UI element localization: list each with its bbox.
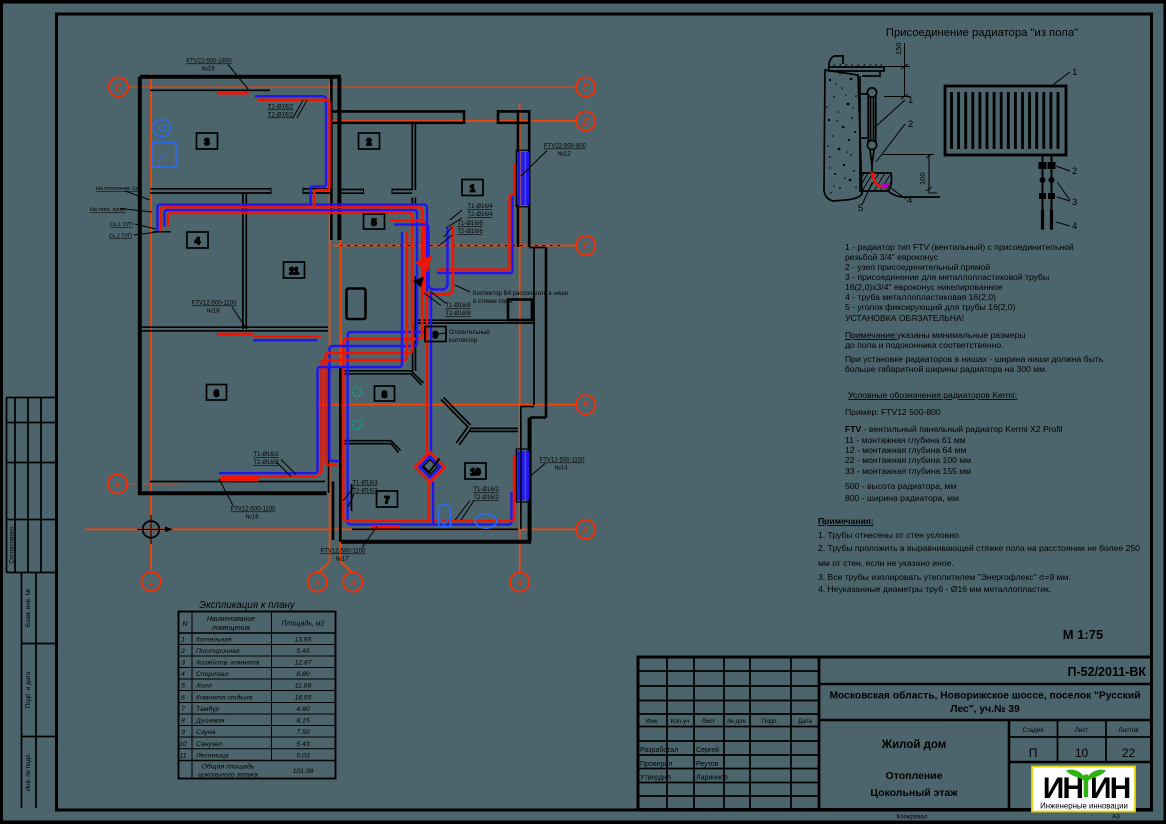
svg-text:3: 3 <box>204 137 209 147</box>
detail leaders left <box>862 100 906 205</box>
svg-text:П: П <box>1029 746 1038 760</box>
radiator FTV12-500-1100 N14 room10 <box>516 449 530 502</box>
axis circle D right <box>576 111 595 130</box>
svg-text:12.87: 12.87 <box>294 660 311 667</box>
svg-text:Лес", уч.№ 39: Лес", уч.№ 39 <box>950 704 1020 715</box>
wall: lower block left <box>328 367 330 493</box>
svg-text:Примечание:: Примечание: <box>845 330 897 340</box>
wall: rooms 2/1 divider <box>412 124 415 205</box>
svg-text:резьбой 3/4" евроконус: резьбой 3/4" евроконус <box>845 252 939 262</box>
radiator FTV12-500-1100 N17 room8 <box>371 525 400 528</box>
plan labels <box>186 59 586 563</box>
wall: lower block right <box>520 406 522 530</box>
diagonal pipe chase diamond <box>415 452 445 524</box>
svg-text:№15: №15 <box>201 66 215 73</box>
svg-text:1: 1 <box>148 577 153 588</box>
title block left grid <box>638 657 819 810</box>
svg-text:Холл: Холл <box>195 683 212 690</box>
floor hatch block <box>860 173 940 197</box>
wall: room7 door jamb <box>351 484 353 511</box>
fixtures: sink <box>475 514 497 528</box>
pipe T1 supply branch 2 <box>168 213 412 465</box>
svg-text:5: 5 <box>181 683 185 690</box>
title block right part <box>819 684 1152 810</box>
axis circle V right <box>576 395 595 414</box>
svg-text:Отопление: Отопление <box>886 770 943 782</box>
radiator FTV22-500-800 N12 room1 <box>516 150 530 207</box>
svg-text:Сх.1 ТУП: Сх.1 ТУП <box>110 222 133 228</box>
svg-text:Изм.: Изм. <box>645 718 659 725</box>
pipe T1 supply room1 branch <box>437 164 514 270</box>
svg-text:3. Все трубы изолировать утепл: 3. Все трубы изолировать утеплителем "Эн… <box>818 572 1071 582</box>
pipe T2 return room3 riser <box>255 96 326 204</box>
svg-text:Лист: Лист <box>702 718 716 725</box>
svg-text:2 - узел присоединительный пря: 2 - узел присоединительный прямой <box>845 262 990 272</box>
svg-text:2: 2 <box>366 137 371 147</box>
svg-text:Т1-Ø16/2: Т1-Ø16/2 <box>268 105 294 111</box>
svg-text:9: 9 <box>181 729 185 736</box>
svg-text:Стадия: Стадия <box>1022 727 1043 734</box>
wall: upper middle band y110-124 <box>331 110 529 124</box>
svg-text:Г: Г <box>583 241 589 252</box>
svg-text:Е: Е <box>583 83 590 94</box>
svg-text:Условные обозначения радиаторо: Условные обозначения радиаторов Kermi: <box>848 390 1017 400</box>
svg-text:цокольного этажа: цокольного этажа <box>198 772 258 779</box>
svg-text:FTV12-500-1100: FTV12-500-1100 <box>540 458 586 464</box>
wall inner face <box>860 76 866 173</box>
svg-text:Т2-Ø16/4: Т2-Ø16/4 <box>467 212 493 218</box>
dim line top <box>884 43 910 99</box>
svg-text:16(2,0)х3/4" евроконус никелир: 16(2,0)х3/4" евроконус никелированное <box>845 282 1003 292</box>
pipe T1 supply room3 riser <box>258 100 330 208</box>
axis circle 4 <box>510 572 529 591</box>
svg-text:5: 5 <box>858 203 863 214</box>
svg-text:1: 1 <box>181 637 185 644</box>
svg-text:Примечания:: Примечания: <box>818 516 874 526</box>
svg-text:22: 22 <box>1122 746 1136 760</box>
wall: door diagonal room10 <box>441 398 471 428</box>
svg-text:4: 4 <box>517 578 522 589</box>
wall: rooms 4/11 divider <box>243 193 246 329</box>
svg-text:до пола и подоконника соответс: до пола и подоконника соответственно. <box>845 340 1004 350</box>
explication table frame <box>179 612 336 779</box>
svg-text:Т1-Ø16/2: Т1-Ø16/2 <box>473 487 499 493</box>
fixtures: furniture room11 <box>347 289 366 320</box>
svg-text:FTV12-500-1100: FTV12-500-1100 <box>192 301 238 307</box>
svg-text:А: А <box>582 525 589 536</box>
svg-text:Т1-Ø16/8: Т1-Ø16/8 <box>445 303 471 309</box>
pipe source end cap <box>153 231 171 233</box>
svg-text:№12: №12 <box>557 151 571 158</box>
svg-text:1: 1 <box>470 184 475 194</box>
svg-text:больше габаритной ширины радиа: больше габаритной ширины радиатора на 30… <box>845 364 1047 374</box>
svg-text:3: 3 <box>350 578 356 589</box>
radiator front view <box>945 86 1066 155</box>
svg-text:На тепл. пункт: На тепл. пункт <box>90 207 126 213</box>
svg-text:7.50: 7.50 <box>296 729 309 736</box>
svg-text:1: 1 <box>908 95 913 106</box>
wall: spine x330-341 upper <box>330 78 333 240</box>
svg-text:2: 2 <box>180 648 185 655</box>
svg-text:в стяжке пола: в стяжке пола <box>473 299 513 305</box>
svg-text:2: 2 <box>1072 166 1077 177</box>
pipe T2 return main corridor <box>158 205 512 525</box>
svg-text:указаны минимальные размеры: указаны минимальные размеры <box>897 330 1026 340</box>
radiator FTV12-500-1100 N16 room6 and pipes <box>219 472 313 474</box>
svg-text:Т2-Ø16/2: Т2-Ø16/2 <box>268 113 294 119</box>
svg-text:Сергей: Сергей <box>696 746 719 754</box>
svg-text:Реутов: Реутов <box>696 761 719 768</box>
svg-text:Б: Б <box>114 480 120 491</box>
svg-text:13.65: 13.65 <box>294 637 311 644</box>
svg-text:Т1-Ø16/2: Т1-Ø16/2 <box>253 452 279 458</box>
collector V4 hairpin loops <box>390 221 453 294</box>
left stamp lower box <box>22 573 57 809</box>
axis circle E right <box>576 77 595 96</box>
svg-text:11: 11 <box>289 266 299 276</box>
svg-text:Комната отдыха: Комната отдыха <box>196 694 253 702</box>
svg-text:10: 10 <box>1075 746 1089 760</box>
detail leaders right <box>1050 72 1070 226</box>
svg-text:№ док.: № док. <box>727 718 747 725</box>
svg-text:Т1-Ø16/6: Т1-Ø16/6 <box>457 221 483 227</box>
wall: room3 bottom <box>150 188 412 195</box>
svg-text:№17: №17 <box>335 556 349 563</box>
svg-text:4: 4 <box>181 671 185 678</box>
svg-text:На отопление 1эт.: На отопление 1эт. <box>96 186 140 192</box>
svg-text:8.80: 8.80 <box>296 671 309 678</box>
svg-text:М 1:75: М 1:75 <box>1063 627 1103 642</box>
svg-text:Т2-Ø16/8: Т2-Ø16/8 <box>445 311 471 317</box>
axis circle A right <box>576 520 595 539</box>
svg-text:Т2-Ø16/3: Т2-Ø16/3 <box>352 489 378 495</box>
svg-text:10: 10 <box>470 467 480 477</box>
svg-text:Присоединение радиатора "из по: Присоединение радиатора "из пола" <box>886 27 1078 39</box>
axis horizontals <box>128 86 576 88</box>
svg-text:В: В <box>583 400 590 411</box>
svg-text:8.15: 8.15 <box>296 718 309 725</box>
svg-text:Проверил: Проверил <box>640 761 672 768</box>
pipe T2 return branch 2 <box>165 210 418 461</box>
room number boxes <box>187 133 486 507</box>
wall: x414 vertical <box>413 276 416 371</box>
benchmark symbol <box>137 515 173 544</box>
svg-text:11: 11 <box>179 753 186 760</box>
fixtures: toilet <box>439 505 451 527</box>
walls: left block outer <box>138 77 341 495</box>
svg-text:Лестница: Лестница <box>195 753 229 760</box>
svg-text:2: 2 <box>908 119 913 130</box>
svg-text:4: 4 <box>195 236 201 246</box>
svg-text:Кол.уч: Кол.уч <box>671 718 690 725</box>
svg-text:3 - присоединение для металлоп: 3 - присоединение для металлопластиковой… <box>845 272 1049 282</box>
svg-text:6: 6 <box>214 389 219 399</box>
explication rows <box>179 637 313 779</box>
svg-text:ИН: ИН <box>1043 772 1083 805</box>
svg-text:П-52/2011-ВК: П-52/2011-ВК <box>1068 665 1147 679</box>
svg-text:Утвердил: Утвердил <box>640 775 671 782</box>
wall speckles <box>826 70 857 194</box>
svg-text:500 - высота радиатора, мм: 500 - высота радиатора, мм <box>845 481 957 491</box>
svg-text:Московская область, Новорижско: Московская область, Новорижское шоссе, п… <box>829 690 1140 702</box>
radiator FTV22 room3 <box>217 91 249 94</box>
detail wall section <box>824 56 884 201</box>
svg-text:Дата: Дата <box>798 718 812 725</box>
wall: lower block bottom <box>341 540 531 544</box>
svg-text:Д: Д <box>581 117 589 128</box>
svg-text:помещения: помещения <box>212 625 250 632</box>
svg-text:Копировал: Копировал <box>896 814 927 821</box>
svg-text:33 - монтажная глубина 155 мм: 33 - монтажная глубина 155 мм <box>845 466 971 476</box>
svg-text:мм от стен, если не указано ин: мм от стен, если не указано иное. <box>818 558 954 568</box>
svg-text:ИН: ИН <box>1090 772 1130 805</box>
svg-text:коллектор: коллектор <box>449 338 478 344</box>
red elbow pipe <box>873 176 886 187</box>
svg-text:10: 10 <box>179 741 187 748</box>
svg-text:1. Трубы отнесены от стен усло: 1. Трубы отнесены от стен условно. <box>818 530 961 540</box>
svg-text:FTV12-500-1100: FTV12-500-1100 <box>321 549 367 555</box>
svg-text:Листов: Листов <box>1118 727 1139 734</box>
svg-text:8: 8 <box>181 718 185 725</box>
wall: mid horizontal y327-331 <box>141 327 328 331</box>
svg-text:N: N <box>182 621 188 628</box>
svg-text:Т1-Ø16/3: Т1-Ø16/3 <box>352 481 378 487</box>
svg-text:При установке радиаторов в ниш: При установке радиаторов в нишах - ширин… <box>845 354 1104 364</box>
svg-text:11.68: 11.68 <box>295 683 312 690</box>
svg-text:Цокольный этаж: Цокольный этаж <box>870 787 958 799</box>
svg-text:1 - радиатор тип FTV (вентильн: 1 - радиатор тип FTV (вентильный) с прис… <box>845 242 1074 252</box>
radiator FTV12-500-1100 N18 room4 and pipes <box>217 333 253 336</box>
axis circle 1 <box>141 572 160 591</box>
dim line right <box>883 154 937 193</box>
svg-text:12 - монтажная глубина 64 мм: 12 - монтажная глубина 64 мм <box>845 445 966 455</box>
wall: sauna partition horizontal <box>456 428 518 446</box>
svg-text:Постирочная: Постирочная <box>196 648 240 655</box>
svg-text:8: 8 <box>382 390 387 400</box>
svg-text:11 - монтажная глубина 61 мм: 11 - монтажная глубина 61 мм <box>845 435 966 445</box>
svg-text:1: 1 <box>1072 67 1077 78</box>
pipe T2 return room1 branch <box>437 196 513 273</box>
svg-text:4: 4 <box>1072 221 1077 232</box>
svg-text:Душевая: Душевая <box>195 718 225 725</box>
axis circle B left <box>108 474 127 493</box>
pipe feed to diamond chase <box>426 296 428 456</box>
svg-text:FTV22-500-1400: FTV22-500-1400 <box>186 59 232 65</box>
svg-text:5: 5 <box>371 218 376 228</box>
svg-text:4 - труба металлопластиковая 1: 4 - труба металлопластиковая 16(2,0) <box>845 292 996 302</box>
svg-text:№14: №14 <box>554 465 568 472</box>
svg-text:2. Трубы проложить в выравнива: 2. Трубы проложить в выравнивающей стяжк… <box>818 543 1140 553</box>
svg-text:800 - ширина радиатора, мм: 800 - ширина радиатора, мм <box>845 493 959 503</box>
svg-text:Площадь, м2: Площадь, м2 <box>282 620 325 628</box>
svg-text:7: 7 <box>181 706 185 713</box>
svg-text:22 - монтажная глубина 100 мм: 22 - монтажная глубина 100 мм <box>845 455 971 465</box>
svg-text:4. Неуказанные диаметры труб -: 4. Неуказанные диаметры труб - Ø16 мм ме… <box>818 584 1051 594</box>
axis circle 3 <box>343 572 362 591</box>
wall: east step <box>508 248 546 418</box>
wall: y372 horizontal + diagonal <box>342 371 424 385</box>
svg-text:УСТАНОВКА ОБЯЗАТЕЛЬНА!: УСТАНОВКА ОБЯЗАТЕЛЬНА! <box>845 313 964 323</box>
fixtures: teal drains <box>352 387 361 396</box>
wall: room1 right x518-530 <box>518 110 529 247</box>
explication header <box>182 616 324 632</box>
svg-text:100: 100 <box>918 172 927 185</box>
fixtures: room3 box <box>152 143 176 168</box>
svg-text:Жилой дом: Жилой дом <box>881 739 947 751</box>
svg-text:Подп.: Подп. <box>762 718 779 725</box>
svg-text:Инженерные инновации: Инженерные инновации <box>1040 802 1128 811</box>
svg-text:Лист: Лист <box>1075 727 1089 734</box>
svg-text:FTV22-500-800: FTV22-500-800 <box>544 144 587 150</box>
svg-text:Подп. и дата: Подп. и дата <box>25 671 32 708</box>
svg-text:FTV12-500-1100: FTV12-500-1100 <box>231 507 277 513</box>
svg-text:Отопительный: Отопительный <box>449 329 490 336</box>
svg-text:3: 3 <box>1072 197 1077 208</box>
svg-text:3: 3 <box>181 660 185 667</box>
svg-text:2: 2 <box>314 578 321 589</box>
svg-text:№16: №16 <box>245 514 259 521</box>
axis verticals <box>151 74 520 573</box>
svg-text:Инв. № подл.: Инв. № подл. <box>25 752 32 791</box>
svg-text:№18: №18 <box>206 308 220 315</box>
svg-text:9: 9 <box>433 330 438 340</box>
wall: y321 horizontal <box>416 320 535 323</box>
svg-text:101.98: 101.98 <box>293 768 314 775</box>
svg-text:5.43: 5.43 <box>296 741 309 748</box>
svg-text:Согласовано: Согласовано <box>9 526 16 564</box>
svg-text:Коллектор В4 располагать в ниш: Коллектор В4 располагать в нише <box>473 291 569 297</box>
svg-text:Спортзал: Спортзал <box>196 671 229 678</box>
left source labels <box>90 186 140 240</box>
svg-text:Котельная: Котельная <box>196 637 232 644</box>
svg-text:4.80: 4.80 <box>296 706 309 713</box>
svg-text:Пример: FTV12 500-800: Пример: FTV12 500-800 <box>845 407 941 417</box>
pipe T2 return descent line 6 <box>313 232 402 473</box>
svg-text:150: 150 <box>894 42 903 55</box>
pipe T1 supply main corridor <box>161 207 514 521</box>
svg-text:Взам. инв. №: Взам. инв. № <box>25 588 32 627</box>
svg-text:Т2-Ø16/2: Т2-Ø16/2 <box>253 460 279 466</box>
svg-text:7: 7 <box>384 495 389 505</box>
svg-text:Т2-Ø16/2: Т2-Ø16/2 <box>473 495 499 501</box>
svg-text:Тамбур: Тамбур <box>196 705 220 713</box>
svg-text:5 - уголок фиксирующий для тру: 5 - уголок фиксирующий для трубы 16(2,0) <box>845 302 1016 312</box>
notes text right column <box>818 242 1140 594</box>
svg-text:Санузел: Санузел <box>196 741 223 748</box>
svg-text:6: 6 <box>181 695 185 702</box>
axis circle 2 <box>308 572 327 591</box>
svg-text:Общая площадь: Общая площадь <box>202 763 255 771</box>
svg-text:Т1-Ø16/4: Т1-Ø16/4 <box>467 204 493 210</box>
svg-text:4: 4 <box>907 195 912 206</box>
svg-text:Разработал: Разработал <box>640 746 678 754</box>
title block outer <box>638 657 1152 810</box>
svg-text:Е: Е <box>115 83 122 94</box>
svg-text:Хозяйств. комната: Хозяйств. комната <box>195 659 260 667</box>
left stamp upper box <box>7 398 57 573</box>
wall: room8 bottom y442 <box>342 441 401 453</box>
axis circle E left <box>109 77 128 96</box>
svg-text:Сауна: Сауна <box>196 729 216 736</box>
svg-text:А3: А3 <box>1112 814 1120 821</box>
magenta fitting <box>882 183 890 188</box>
leader lines <box>120 65 547 548</box>
svg-text:FTV - вентильный панельный ра: FTV - вентильный панельный радиатор Kerm… <box>845 424 1063 434</box>
svg-text:Ларионов: Ларионов <box>696 775 728 782</box>
svg-text:5.03: 5.03 <box>296 753 309 760</box>
svg-text:Сх.2 ТУП: Сх.2 ТУП <box>109 234 132 240</box>
detail pipes below <box>1043 155 1052 230</box>
svg-text:5.45: 5.45 <box>296 648 309 655</box>
svg-text:Т2-Ø16/6: Т2-Ø16/6 <box>457 229 483 235</box>
fixtures: room3 pump <box>154 120 171 137</box>
svg-text:Экспликация к плану: Экспликация к плану <box>199 600 296 611</box>
pipe T1 supply descent line 5 <box>317 232 407 474</box>
signature rows <box>640 746 728 782</box>
header labels <box>645 718 812 725</box>
logo INZHIN <box>1032 767 1135 812</box>
axis circle G right <box>576 236 595 255</box>
stage cells <box>1022 727 1139 734</box>
svg-text:18.65: 18.65 <box>294 695 311 702</box>
svg-text:Наименование: Наименование <box>207 616 255 623</box>
radiator section <box>861 88 877 172</box>
